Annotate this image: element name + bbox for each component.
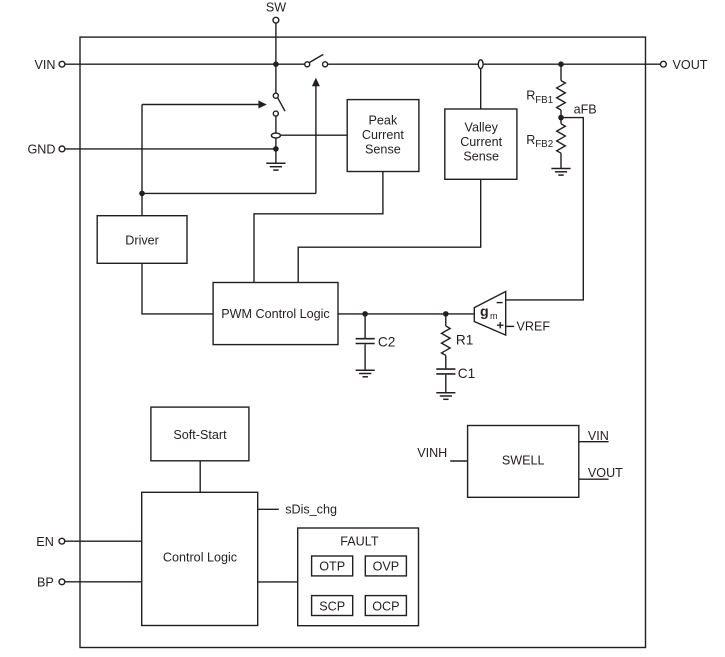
wire sDis_chg stub [258,508,279,510]
svg-text:g: g [480,304,489,320]
node VOUT-RFB1 junction [558,61,564,67]
svg-text:VINH: VINH [417,446,447,460]
svg-text:OTP: OTP [319,560,345,574]
svg-text:SW: SW [266,1,286,15]
wire Valley Sense to PWM [298,179,481,283]
node aFB junction [558,115,564,121]
svg-text:R: R [526,133,535,147]
svg-text:EN: EN [36,535,54,549]
svg-text:Sense: Sense [365,142,401,156]
svg-text:FB1: FB1 [535,95,553,106]
capacitor C2 [356,314,396,370]
svg-text:Peak: Peak [369,113,398,127]
pin VOUT terminal [661,61,667,67]
node C2 junction [362,311,368,317]
svg-text:R1: R1 [456,332,473,347]
svg-text:PWM Control Logic: PWM Control Logic [221,307,329,321]
resistor RFB2 [526,118,565,169]
pin VIN stub of SWELL [579,441,609,443]
svg-text:sDis_chg: sDis_chg [285,503,337,517]
pin GND terminal [59,146,65,152]
wire switch to sense element [275,116,277,133]
block OTP [312,556,353,576]
wire PWM to Driver [142,263,213,314]
wire sense to Peak Current Sense block [280,134,347,136]
wire VIN to high-side switch [65,63,305,65]
arrowhead to high-side switch [312,78,320,87]
ground symbol C2 [356,370,375,377]
svg-text:C2: C2 [378,335,395,350]
valley sense element (ellipse) [478,60,483,69]
block PWM Control Logic [213,283,338,345]
block Control Logic [142,492,258,625]
svg-text:VOUT: VOUT [588,466,623,480]
block FAULT [298,528,419,626]
op-amp gm error amplifier [474,292,505,336]
svg-text:VIN: VIN [35,58,56,72]
svg-text:Soft-Start: Soft-Start [173,428,227,442]
block SCP [312,596,353,616]
svg-text:m: m [490,311,498,321]
svg-text:VIN: VIN [588,429,609,443]
svg-text:FB2: FB2 [535,139,553,150]
svg-text:FAULT: FAULT [340,535,379,549]
svg-text:VOUT: VOUT [673,58,708,72]
svg-text:aFB: aFB [574,102,597,116]
pin SW terminal [273,17,279,23]
svg-text:BP: BP [37,576,54,590]
wire Peak Sense to PWM [254,172,383,284]
svg-text:VREF: VREF [517,320,551,334]
wire sense element to ground node [275,138,277,163]
block Driver [97,216,187,264]
pin VREF stub [506,325,515,327]
chip boundary box [80,37,646,647]
svg-text:GND: GND [28,143,56,157]
svg-text:OVP: OVP [373,560,400,574]
wire EN [65,540,142,542]
wire GND [65,148,276,150]
wire Soft-Start to Control Logic [199,461,201,493]
ground symbol main [266,163,285,170]
wire BP [65,581,142,583]
pin VIN terminal [59,61,65,67]
node gate junction [139,191,145,197]
block Soft-Start [151,407,249,461]
svg-text:C1: C1 [458,366,475,381]
pin EN terminal [59,538,65,544]
wire Control Logic to FAULT [258,581,298,583]
block SWELL [468,426,579,498]
svg-text:SCP: SCP [319,599,345,613]
wire valley sense to block [480,69,482,109]
resistor R1 [441,314,473,369]
ground symbol C1 [436,393,455,400]
node R1 junction [443,311,449,317]
svg-text:Current: Current [362,128,404,142]
block OCP [365,596,406,616]
svg-text:Sense: Sense [463,150,499,164]
wire node A to low-side switch [275,64,277,93]
resistor RFB1 [526,64,565,117]
svg-text:Control Logic: Control Logic [163,551,237,565]
switch S1 high-side [305,54,328,66]
node A junction [273,61,279,67]
block OVP [365,556,406,576]
wire aFB feedback to gm inverting input [506,118,584,300]
peak sense element (ellipse) [271,133,280,138]
svg-text:Driver: Driver [125,233,159,247]
pin VOUT stub of SWELL [579,478,609,480]
capacitor C1 [436,366,475,393]
node GND junction [273,146,279,152]
svg-text:Valley: Valley [465,121,499,135]
pin BP terminal [59,579,65,585]
wire driver gate drive with junction [142,86,316,216]
ground symbol RFB2 [551,169,570,176]
svg-text:R: R [526,89,535,103]
block Peak Current Sense [347,100,419,172]
wire SW to node A [275,23,277,64]
wire VINH stub [450,460,467,462]
wire PWM to gm output [338,313,474,315]
arrowhead to low-side switch [258,101,266,109]
svg-text:SWELL: SWELL [502,453,545,467]
svg-text:OCP: OCP [372,599,399,613]
block Valley Current Sense [445,109,517,179]
switch S2 low-side [273,93,285,116]
svg-text:Current: Current [460,135,502,149]
wire VOUT net [328,63,661,65]
